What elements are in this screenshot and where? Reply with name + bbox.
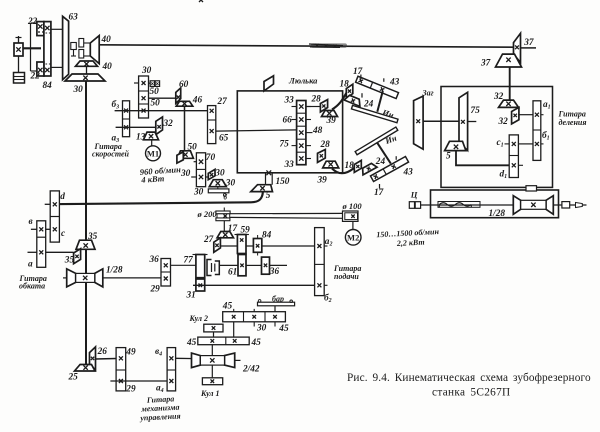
svg-text:17: 17 (228, 224, 238, 234)
svg-text:30: 30 (256, 324, 267, 334)
svg-text:75: 75 (471, 106, 481, 116)
label a3 (112, 134, 120, 145)
tick row1 (234, 309, 275, 327)
wire row1 down (233, 322, 235, 337)
svg-text:32: 32 (493, 92, 504, 102)
bevel flag 27 (214, 238, 221, 253)
label kul1 (200, 389, 220, 398)
wire 84 to 63 bottom (51, 66, 63, 68)
wire curve to bottom tool (332, 168, 354, 173)
small gear P (71, 43, 77, 57)
wire table shaft (421, 204, 587, 206)
wire 36-77 mesh (171, 264, 196, 266)
wire 50-70 mesh (194, 161, 197, 163)
stub b2 (324, 284, 327, 286)
label 27 feed (203, 235, 214, 245)
label 40 lower (102, 62, 113, 72)
bevel 50 flat (177, 151, 193, 159)
svg-text:2,2 кВт: 2,2 кВт (396, 238, 425, 248)
label a2 (325, 237, 333, 248)
label 1-28 table (489, 209, 506, 219)
wire worm shaft (63, 277, 161, 279)
label 28 top (311, 95, 322, 105)
svg-text:84: 84 (262, 230, 272, 240)
bevel flag 60 (176, 88, 181, 104)
svg-text:22: 22 (27, 17, 38, 27)
svg-text:18: 18 (345, 161, 355, 171)
label 22 bottom (30, 72, 41, 82)
svg-text:1/28: 1/28 (106, 265, 123, 275)
label 48 (312, 126, 323, 136)
bevel 24 flat top (344, 94, 362, 106)
svg-text:М2: М2 (347, 233, 359, 243)
wire 70-flag30 (206, 176, 209, 178)
stub d1 right (518, 164, 523, 166)
wire thick return (51, 192, 263, 205)
wire 84 to 63 top (51, 28, 63, 30)
svg-text:Люлька: Люлька (288, 76, 318, 86)
svg-text:деления: деления (559, 118, 587, 127)
wire shaft III to lyulka (216, 130, 297, 131)
label 39 bottom (317, 175, 328, 185)
svg-text:33: 33 (284, 95, 295, 105)
svg-text:30: 30 (73, 85, 84, 95)
label d1 (500, 170, 508, 181)
bevel 39 flat top (322, 111, 338, 117)
bevel flag 50 left (177, 152, 183, 163)
wire 70 left stub (191, 176, 196, 178)
svg-text:в: в (29, 217, 33, 227)
bevel 13 flat (144, 132, 159, 140)
svg-text:27: 27 (203, 235, 214, 245)
svg-text:ø 100: ø 100 (342, 201, 363, 211)
svg-text:Рис. 9.4. Кинематическая схема: Рис. 9.4. Кинематическая схема зубофрезе… (347, 372, 591, 384)
label b3 (112, 99, 120, 111)
label b1 (542, 130, 550, 142)
label 43 bottom (403, 168, 414, 178)
wire worm shaft 242 (235, 359, 241, 361)
bevel flag 28 bottom (318, 150, 326, 163)
drum bar (258, 300, 295, 306)
bevel flag 18 bottom (354, 160, 361, 172)
label 28 bottom (320, 140, 331, 150)
wire top main shaft (99, 45, 513, 47)
label 1-28 obkat (106, 265, 123, 275)
bevel flag 35 (74, 249, 81, 264)
wire 26-49 (96, 358, 117, 361)
label 26 (97, 347, 108, 357)
svg-text:70: 70 (206, 153, 216, 163)
coupling near 30 (147, 81, 159, 87)
svg-text:37: 37 (480, 58, 491, 68)
gear column 70 (196, 0, 205, 187)
svg-text:17: 17 (374, 188, 384, 198)
label 65 (219, 133, 229, 143)
label 45 right cam (278, 324, 289, 334)
pulley b bar (208, 189, 229, 197)
label 13 (136, 133, 146, 143)
svg-text:Ц: Ц (410, 190, 418, 200)
stub 33 bottom (306, 158, 311, 160)
svg-text:46: 46 (192, 96, 203, 106)
bevel cone zag (414, 96, 424, 149)
cam kul2 (204, 324, 223, 332)
label v4 (155, 347, 162, 358)
svg-text:17: 17 (353, 67, 363, 77)
label 150-1500 (376, 227, 440, 239)
wire kul2 down (213, 332, 215, 337)
label 5 lyulka (266, 191, 271, 201)
label 70 (206, 153, 216, 163)
gear column lyulka (297, 101, 306, 165)
label C center (410, 190, 418, 200)
svg-text:22: 22 (30, 72, 41, 82)
label 29 obkat (150, 285, 161, 295)
spline coupling 40 (79, 39, 90, 59)
gear column a2-b2 (315, 228, 325, 296)
clutch jaws (207, 260, 219, 276)
label a4 (156, 384, 164, 395)
wire v left stub (31, 228, 37, 230)
division box (441, 87, 553, 188)
caption line 1 (347, 372, 591, 384)
svg-text:50: 50 (150, 87, 160, 97)
svg-text:б: б (224, 194, 228, 202)
svg-text:29: 29 (125, 384, 136, 394)
label 17 bottom (374, 188, 384, 198)
label d200 (197, 209, 218, 219)
stub 66 (292, 119, 312, 121)
svg-text:63: 63 (69, 13, 79, 23)
label 30 left of 70 (180, 169, 191, 179)
stub c1 left (505, 143, 510, 145)
wire 37 vertical (509, 67, 511, 100)
svg-text:обката: обката (19, 282, 45, 291)
label 75 lyulka (280, 139, 290, 149)
label 4kvt (140, 173, 165, 185)
label a obkat (28, 260, 33, 270)
bevel flag 37 (514, 33, 537, 62)
hob bar In bottom (355, 127, 398, 155)
svg-text:45: 45 (222, 302, 233, 312)
label 22kvt (396, 238, 425, 248)
svg-text:ø 200: ø 200 (197, 209, 218, 219)
wire 5 to d1 (456, 151, 509, 166)
label 960 (139, 164, 181, 177)
label lyulka (288, 76, 318, 86)
bevel cone 40 (90, 36, 99, 64)
wire a-35 mesh (46, 251, 74, 253)
svg-text:45: 45 (251, 338, 262, 348)
label 46 (192, 96, 203, 106)
bevel 37 flat (496, 54, 522, 67)
wire shaft 61-36 (219, 264, 287, 266)
svg-text:c: c (61, 229, 65, 239)
stub 33 top (292, 106, 312, 108)
label 66 (283, 115, 293, 125)
tool bar 43 bottom (370, 156, 408, 188)
label In bottom (383, 133, 398, 147)
label 30 bevel small (225, 178, 236, 188)
svg-text:39: 39 (317, 175, 328, 185)
svg-text:31: 31 (186, 291, 196, 301)
svg-text:28: 28 (320, 140, 331, 150)
label 30 flag (214, 169, 225, 179)
wire input shaft (23, 47, 41, 49)
wire shaft b3-32 (116, 126, 156, 128)
svg-text:4 кВт: 4 кВт (140, 173, 165, 185)
wire v-c mesh (46, 228, 51, 230)
svg-text:30: 30 (214, 169, 225, 179)
yoke frame (31, 23, 39, 71)
svg-text:50: 50 (188, 143, 198, 153)
svg-text:45: 45 (278, 324, 289, 334)
label 50 bevel (188, 143, 198, 153)
label 50 a (150, 87, 160, 97)
wire worm-kul1 (211, 365, 213, 378)
svg-text:скоростей: скоростей (92, 150, 130, 159)
label In top (380, 107, 395, 120)
wire 29-a4 (110, 380, 167, 382)
wire 59-84 (246, 245, 253, 247)
bevel flag 30 (208, 169, 215, 179)
bevel 150 (251, 185, 273, 192)
label b small (224, 194, 228, 202)
bevel 39 flat bottom (323, 161, 339, 168)
wire pulley-M2 (352, 221, 354, 229)
wire junction neck (266, 173, 273, 185)
label 37 right (523, 38, 534, 48)
svg-text:35: 35 (64, 256, 75, 266)
wire zag-75 (423, 120, 459, 122)
label 75 division (471, 106, 481, 116)
svg-text:30: 30 (180, 169, 191, 179)
svg-text:24: 24 (375, 157, 386, 167)
junction lyulka bottom (266, 170, 271, 175)
wire mesh 28 top (306, 106, 321, 108)
svg-text:49: 49 (125, 348, 136, 358)
caption line 2 (432, 387, 511, 399)
svg-text:84: 84 (43, 81, 53, 91)
svg-text:25: 25 (68, 372, 79, 382)
label 2-42 (242, 365, 260, 375)
label guitar upravleniya (139, 394, 181, 422)
label 32 bottom division (498, 117, 509, 127)
svg-text:d: d (60, 192, 65, 202)
label 25 (68, 372, 79, 382)
wire shaft feed (220, 245, 237, 247)
lyulka top flag (264, 76, 274, 91)
lyulka box (237, 91, 342, 173)
wire 30 bevel down (217, 187, 219, 189)
label 31 (186, 291, 196, 301)
label 84 (43, 81, 53, 91)
bevel 17 flat (217, 232, 233, 238)
gear column 49-29 (116, 348, 126, 391)
cam kul1 (202, 378, 222, 385)
label 17 feed (228, 224, 238, 234)
svg-text:59: 59 (241, 226, 251, 236)
svg-text:40: 40 (101, 35, 112, 45)
svg-text:45: 45 (186, 338, 197, 348)
stub a1 (541, 114, 544, 116)
label d obkat (60, 192, 65, 202)
gear column 27-65 (208, 106, 216, 144)
wire hob axis bottom (377, 142, 391, 163)
gear column 30-50-50 (139, 76, 149, 118)
coupling C (409, 202, 420, 209)
gear 84 feed (253, 235, 261, 256)
label 32 top division (493, 92, 504, 102)
wire long lower shaft (193, 284, 315, 286)
wire 13 to M1 (151, 140, 153, 146)
label 45 row2 right (251, 338, 262, 348)
bevel 46 flat (176, 101, 193, 106)
svg-text:33: 33 (284, 160, 295, 170)
bevel 40 flat (76, 61, 98, 66)
svg-text:а: а (28, 260, 33, 270)
bevel 24 flat bottom (360, 162, 377, 175)
svg-text:Кул 2: Кул 2 (189, 314, 209, 323)
wire 32-a1 (519, 114, 533, 116)
pulley 200 (216, 208, 230, 221)
table box (431, 190, 559, 218)
gear 22 bottom (37, 62, 44, 76)
wire curve to top tool (332, 92, 347, 110)
svg-text:13: 13 (136, 133, 146, 143)
wire c1-b1 (518, 143, 533, 145)
svg-text:60: 60 (179, 80, 189, 90)
table worm (513, 196, 553, 215)
spline marks top shaft (309, 43, 347, 47)
svg-text:29: 29 (150, 285, 161, 295)
svg-text:32: 32 (498, 117, 509, 127)
bevel cone 63 (63, 16, 69, 79)
gear 61 (238, 255, 246, 276)
wire pulley200 down (223, 221, 225, 232)
svg-text:35: 35 (87, 232, 98, 242)
gear column d-c (45, 191, 60, 242)
svg-text:30: 30 (225, 178, 236, 188)
svg-text:40: 40 (102, 62, 113, 72)
label 5 division (446, 152, 451, 162)
svg-text:М1: М1 (147, 149, 159, 159)
bevel 5 division (445, 141, 466, 150)
label 77 (184, 256, 194, 266)
label 33 bottom (284, 160, 295, 170)
label 40 upper (101, 35, 112, 45)
label 59 (241, 226, 251, 236)
svg-text:77: 77 (184, 256, 194, 266)
table top tick (526, 186, 537, 191)
label guitar obkata (19, 274, 47, 290)
stub b1 (541, 143, 544, 145)
svg-text:5: 5 (266, 191, 271, 201)
svg-text:станка 5С267П: станка 5С267П (432, 387, 511, 399)
stub 75 (292, 145, 312, 147)
gear column b3-a3 (123, 101, 130, 137)
cam row1 (223, 312, 286, 322)
svg-text:1/28: 1/28 (489, 209, 506, 219)
motor M2 (345, 230, 361, 246)
svg-text:66: 66 (283, 115, 293, 125)
gear column c1-d1 (509, 135, 518, 178)
gear 84 tall (44, 22, 51, 76)
label b2 (324, 292, 332, 304)
wire a left stub (28, 251, 37, 253)
gear column v-a (37, 221, 46, 267)
wire shaft I (115, 110, 208, 112)
label 30 under (193, 188, 204, 198)
svg-text:30: 30 (193, 188, 204, 198)
wire shaft I left stub (134, 82, 139, 84)
hob bar In top (351, 105, 398, 122)
label 150 (276, 177, 290, 187)
label 36 obkat (149, 255, 160, 265)
bevel 30 flat (65, 74, 105, 81)
bevel flag 32 speed (156, 117, 163, 135)
pulley 100 (343, 211, 359, 221)
label 43 top (389, 78, 400, 88)
label 36 feed (269, 267, 280, 277)
svg-text:37: 37 (523, 38, 534, 48)
wire shaft 50-60 (149, 97, 176, 99)
label 32 speed (163, 119, 174, 129)
motor M1 (146, 146, 161, 161)
label 84 feed (262, 230, 272, 240)
wire drum-row1 (274, 306, 276, 312)
cam row2 (198, 337, 249, 345)
label 30 cam (256, 324, 267, 334)
label guitar skorostei (92, 142, 130, 158)
label 17 top (353, 67, 363, 77)
label 45 row2 left (186, 338, 197, 348)
svg-text:43: 43 (403, 168, 414, 178)
svg-text:36: 36 (149, 255, 160, 265)
wire row2-worm (211, 345, 213, 356)
bevel 30 flat small (209, 180, 226, 187)
label d100 (342, 201, 363, 211)
gear 59 (235, 235, 249, 254)
wire v4-worm (176, 357, 196, 359)
label 24 top (363, 100, 374, 110)
stub 48 (306, 132, 313, 134)
bevel 35 flat (76, 240, 95, 249)
label guitar podachi (333, 264, 361, 281)
wavy spring (438, 202, 480, 208)
belt lines (230, 213, 343, 218)
svg-text:24: 24 (363, 100, 374, 110)
label 18 top (340, 79, 350, 89)
label 18 bottom (345, 161, 355, 171)
svg-text:65: 65 (219, 133, 229, 143)
svg-text:2/42: 2/42 (242, 365, 260, 375)
bevel cone 75 (459, 92, 468, 150)
svg-text:61: 61 (228, 268, 237, 278)
gear 22 top (37, 22, 44, 36)
gear column a1-b1 (533, 101, 541, 161)
label c obkat (61, 229, 65, 239)
gear column 77-31 (193, 255, 208, 292)
label guitar deleniya (558, 110, 587, 127)
svg-text:32: 32 (163, 119, 174, 129)
label 37 left (480, 58, 491, 68)
label 35 upper (87, 232, 98, 242)
label 27 (217, 97, 228, 107)
svg-text:48: 48 (312, 126, 323, 136)
label c1 (497, 138, 504, 149)
label 63 (69, 13, 79, 23)
